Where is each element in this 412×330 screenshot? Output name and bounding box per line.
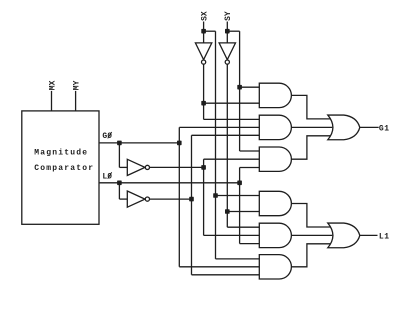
inverter U2 (SX) — [195, 43, 211, 64]
wire L0 from comparator — [99, 182, 240, 184]
wire A6 input L0' — [192, 274, 260, 276]
wire SY vertical run upper — [239, 31, 241, 87]
node SX to A4 — [213, 193, 218, 198]
wire G0' vertical run — [203, 159, 205, 235]
wire A5 input L0 — [240, 243, 260, 245]
wire SY vertical into inverter — [226, 22, 228, 43]
node L0 inverter tap — [117, 181, 122, 186]
and-gate A2 — [259, 115, 291, 139]
wire G0' horizontal — [150, 166, 204, 168]
or-gate O2 — [328, 223, 360, 248]
wire SX vertical run — [215, 31, 217, 195]
wire L0' vertical run — [191, 135, 193, 274]
inverter U4 (G0) — [127, 159, 149, 175]
wire G1 output — [360, 126, 379, 128]
node L0 channel junction — [237, 181, 242, 186]
wire into G0 inverter — [119, 166, 127, 168]
node L0' junction — [189, 197, 194, 202]
wire SY vertical run lower — [239, 87, 241, 151]
wire G0 from comparator — [99, 142, 179, 144]
wire A5 input SY' — [227, 226, 259, 228]
wire SX vertical run lower — [215, 196, 217, 259]
wire A4 input SX — [216, 195, 260, 197]
node G0 channel junction — [177, 141, 182, 146]
wire A3 input SY — [240, 150, 260, 152]
wire SY' vertical lower — [226, 212, 228, 228]
and-gate A6 — [259, 255, 291, 279]
node G0 inverter tap — [117, 141, 122, 146]
wire SX branch horizontal — [204, 30, 216, 32]
and-gate A3 — [259, 147, 291, 171]
wire L0 tap vertical — [118, 183, 120, 199]
wire MY input — [75, 91, 77, 111]
svg-text:MY: MY — [73, 80, 82, 90]
node SX branch junction — [201, 29, 206, 34]
and-gate A1 — [259, 83, 291, 107]
wire A4 output to OR2 — [291, 204, 331, 228]
svg-text:MX: MX — [48, 80, 57, 90]
inverter U5 (L0) — [127, 191, 149, 207]
inverter U3 (SY) — [219, 43, 235, 64]
wire SY branch horizontal — [227, 30, 239, 32]
label L0 zero-slash — [108, 172, 112, 178]
svg-text:L1: L1 — [379, 232, 390, 241]
wire SY' vertical — [226, 65, 228, 212]
wire A2 input SX' — [204, 118, 260, 120]
wire SX' vertical — [203, 65, 205, 120]
node SY branch junction — [225, 29, 230, 34]
and-gate A5 — [259, 223, 291, 247]
wire A2 output to OR1 — [291, 126, 332, 128]
node G0' junction — [201, 165, 206, 170]
node SY to A1 — [237, 85, 242, 90]
wire A3 input G0' — [204, 158, 260, 160]
svg-text:SX: SX — [201, 11, 210, 21]
wire G0 tap vertical — [118, 143, 120, 168]
wire A5 output to OR2 — [291, 234, 332, 236]
wire A3 output to OR1 — [291, 136, 331, 159]
svg-text:G1: G1 — [379, 124, 390, 133]
node SX' to A1 — [201, 101, 206, 106]
wire A6 input SX — [216, 258, 260, 260]
wire A2 input G0 — [179, 126, 259, 128]
wire A6 output to OR2 — [291, 244, 331, 267]
wire SX vertical into inverter — [203, 22, 205, 43]
wire A1 output to OR1 — [291, 95, 331, 119]
wire A4 input SY' — [227, 211, 259, 213]
node SY' to A4 — [225, 209, 230, 214]
wire L0' horizontal — [150, 198, 192, 200]
wire A2 input L0' — [192, 134, 260, 136]
wire A3 input L0 — [240, 167, 260, 169]
wire L1 output — [360, 234, 378, 236]
svg-text:Comparator: Comparator — [34, 164, 94, 173]
and-gate A4 — [259, 191, 291, 215]
wire A1 input SX' — [204, 102, 260, 104]
wire MX input — [51, 91, 53, 111]
or-gate O1 — [328, 115, 360, 140]
svg-text:SY: SY — [224, 11, 233, 21]
magnitude comparator U1 box — [22, 111, 99, 224]
wire A5 input G0' — [204, 234, 260, 236]
wire G0 vertical run — [178, 127, 180, 266]
wire A6 input G0 — [179, 266, 259, 268]
wire L0 vertical run — [239, 168, 241, 244]
wire into L0 inverter — [119, 198, 127, 200]
svg-text:Magnitude: Magnitude — [34, 149, 88, 158]
label G0 zero-slash — [108, 132, 112, 138]
wire A1 input SY — [240, 86, 260, 88]
